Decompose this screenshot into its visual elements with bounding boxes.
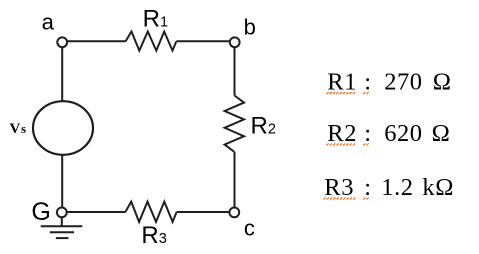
ground bar 2 [50,231,74,233]
wire: node a down to source Vs [61,47,63,101]
svg-text:R2: R2 [327,120,357,147]
node a terminal [57,37,67,47]
svg-text:b: b [244,15,256,40]
svg-text:270: 270 [384,69,422,96]
svg-text:c: c [244,216,255,241]
value text R1 : 270 ohm [327,69,451,96]
resistor R2 [225,96,244,153]
svg-text:Ω: Ω [433,69,452,96]
svg-text:R1: R1 [143,5,168,32]
voltage source Vs [33,101,93,155]
node c terminal [229,208,239,218]
svg-text:R3: R3 [324,174,354,201]
value text R3 : 1.2 kohm [324,174,454,201]
wire: R3 to node c (bottom right) [177,211,230,213]
wire: node b down to R2 [234,47,236,95]
squiggle under R1 [327,92,356,94]
svg-text:Vs: Vs [10,121,27,137]
wire: R1 to node b (top right) [176,40,230,42]
ground bar 1 [41,225,83,227]
svg-text:R2: R2 [251,112,276,139]
svg-text:G: G [31,198,50,226]
wire: R2 down to node c [234,152,236,208]
svg-text:R3: R3 [141,222,166,249]
ground stub wire [61,217,63,226]
svg-text::: : [364,69,371,96]
value text R2 : 620 ohm [327,120,450,147]
wire: source Vs down to node G [61,155,63,208]
svg-text::: : [364,174,371,201]
squiggle under colon 1 [363,92,368,94]
svg-text:a: a [42,10,55,35]
ground bar 3 [56,237,69,239]
svg-text::: : [364,120,371,147]
squiggle under colon 2 [363,143,368,145]
squiggle under R3 [324,198,356,200]
squiggle under R2 [327,143,356,145]
svg-text:kΩ: kΩ [422,174,454,201]
wire: node G to R3 (bottom left) [67,211,126,213]
resistor R3 [125,202,176,222]
node G terminal [57,208,67,218]
wire: node a to R1 (top left) [67,40,125,42]
svg-text:R1: R1 [327,69,357,96]
squiggle under colon 3 [363,198,368,200]
svg-text:620: 620 [384,120,422,147]
svg-text:1.2: 1.2 [381,174,413,201]
node b terminal [230,37,240,47]
resistor R1 [126,32,177,51]
svg-text:Ω: Ω [432,120,451,147]
